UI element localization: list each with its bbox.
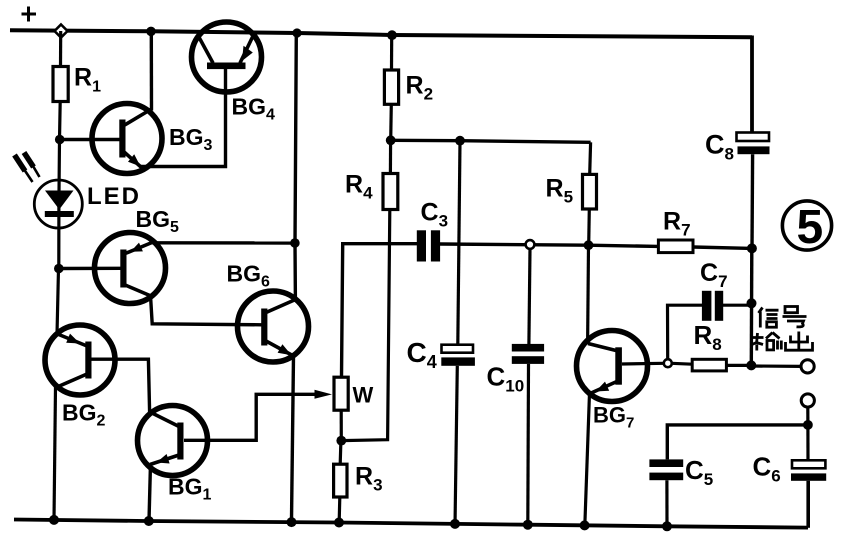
- wire BG5 collector to node: [150, 241, 295, 245]
- junction ground C4: [450, 519, 460, 529]
- wire BG5 node to BG2 emitter: [57, 269, 59, 335]
- wire BG3 emitter to BG4 base: [141, 69, 226, 167]
- wire R7 to node: [693, 247, 752, 248]
- junction ground C5: [662, 521, 672, 531]
- transistor BG3: [92, 104, 162, 174]
- junction ground BG7: [580, 520, 590, 530]
- wire node to output terminal 1: [751, 364, 800, 368]
- wire C3 right to R7 branch: [440, 244, 659, 246]
- junction C7 right node: [747, 298, 757, 308]
- transistor BG7: [577, 331, 648, 402]
- resistor R8: [692, 359, 726, 371]
- wire tap to R8: [672, 362, 693, 366]
- wire terminal 2 down to C5/C6 line: [806, 407, 809, 425]
- wire C7 left plate to BG7 base node: [668, 305, 703, 360]
- wire BG5 emitter to BG6 base: [151, 296, 262, 325]
- wire node to R5 branch: [391, 140, 591, 142]
- junction C4 branch: [455, 136, 465, 146]
- transistor BG2: [45, 325, 115, 395]
- wire BG1 emitter to ground rail: [149, 464, 151, 521]
- capacitor C8: [737, 133, 770, 155]
- capacitor C3: [417, 230, 440, 261]
- junction ground BG6: [287, 517, 297, 527]
- node supply tap (open diamond): [55, 25, 68, 38]
- wire BG7 base to tap: [622, 362, 664, 366]
- junction on rail at BG3 collector: [146, 27, 156, 37]
- wire C4 to ground rail: [455, 366, 457, 526]
- wire BG3 collector to rail: [150, 32, 154, 111]
- label 信号 (signal): [759, 307, 807, 328]
- capacitor C7: [702, 291, 723, 321]
- junction C6 top node: [803, 420, 813, 430]
- wire C4 branch down: [458, 141, 460, 345]
- junction R5/BG7 node: [584, 240, 594, 250]
- junction on rail at BG6 branch: [292, 28, 301, 37]
- wire rail to C8: [750, 36, 754, 133]
- wire rail to R2: [390, 35, 393, 70]
- wire node to BG7 collector: [586, 245, 590, 344]
- svg-text:W: W: [353, 383, 374, 408]
- wire C6 to ground rail corner: [806, 481, 810, 528]
- junction ground BG1: [144, 516, 154, 526]
- transistor BG5: [95, 233, 166, 304]
- capacitor C5: [649, 459, 683, 480]
- transistor BG1: [138, 406, 208, 476]
- node BG7 base tap (open): [664, 359, 672, 367]
- svg-text:5: 5: [797, 201, 824, 254]
- junction BG5 collector node: [290, 238, 300, 248]
- wire BG5 base: [59, 267, 121, 271]
- wire R8 to output node: [726, 364, 751, 367]
- wire C5/C6 top line: [667, 425, 808, 460]
- label 输出 (output): [752, 332, 813, 351]
- wire top supply rail: [10, 30, 752, 37]
- wire R3 to ground rail: [338, 497, 342, 521]
- svg-text:LED: LED: [87, 183, 141, 210]
- terminal output 1 (open circle): [801, 360, 814, 373]
- resistor R7: [658, 240, 693, 253]
- wire BG7 emitter to ground rail: [585, 393, 590, 526]
- transistor BG6: [238, 291, 309, 362]
- LED light rays: [15, 153, 40, 183]
- wire R2 node to R4: [389, 140, 392, 173]
- resistor R5: [583, 174, 597, 209]
- wire R7 node down to R8 node: [750, 248, 754, 365]
- junction BG3 base node: [55, 135, 65, 145]
- wire BG2 collector to ground rail: [54, 387, 56, 521]
- potentiometer W: [334, 377, 348, 410]
- junction ground BG2: [49, 515, 59, 525]
- wire C7 right plate to node: [723, 304, 752, 307]
- power symbol +: [22, 7, 37, 22]
- wire BG2 base to BG1 collector: [91, 359, 150, 412]
- wire rail to BG6 collector: [295, 33, 296, 300]
- terminal output 2 (open circle): [801, 394, 814, 407]
- capacitor C10: [512, 344, 544, 364]
- wire C8 to R7 node: [750, 154, 754, 249]
- junction BG5 base node: [54, 264, 64, 274]
- wire BG6 emitter to ground rail: [292, 356, 294, 521]
- wire R5 branch down: [588, 142, 592, 174]
- wire R2 to node: [389, 104, 393, 140]
- capacitor C4: [441, 345, 475, 366]
- capacitor C6: [791, 460, 826, 481]
- wire C5 to ground rail: [665, 480, 668, 526]
- resistor R4: [383, 174, 398, 210]
- wire C10 tap down: [529, 249, 530, 345]
- wire BG1 base to wiper: [184, 394, 316, 440]
- wiper arrow of potentiometer W: [315, 390, 333, 399]
- wire BG3 base: [60, 138, 120, 141]
- junction ground C10: [523, 520, 533, 530]
- junction R2/R4 node: [386, 135, 396, 145]
- wire node to R3: [339, 441, 343, 465]
- wire ground rail: [14, 520, 808, 528]
- wire R5 to C3 line: [587, 209, 591, 245]
- wire R1 to LED: [59, 102, 60, 271]
- LED D1: [34, 180, 82, 228]
- junction R7 node: [747, 243, 757, 253]
- wire W to bottom node: [340, 410, 343, 441]
- reference mark circled 5: [782, 201, 831, 254]
- resistor R3: [334, 464, 347, 497]
- junction R8 output node: [746, 360, 756, 370]
- wire C6 node down: [806, 425, 809, 460]
- wire R4 down to W bottom node: [341, 210, 390, 441]
- junction ground R3: [334, 518, 344, 528]
- resistor R2: [384, 70, 398, 104]
- wire C10 to ground rail: [526, 364, 530, 526]
- junction on rail at R2: [387, 30, 397, 40]
- wire C3 left to W top: [342, 244, 418, 378]
- node C10 tap (open): [526, 240, 535, 249]
- resistor R1: [53, 67, 68, 102]
- wire rail to R1: [59, 31, 62, 67]
- junction W bottom node: [336, 436, 346, 446]
- transistor BG4: [192, 22, 262, 92]
